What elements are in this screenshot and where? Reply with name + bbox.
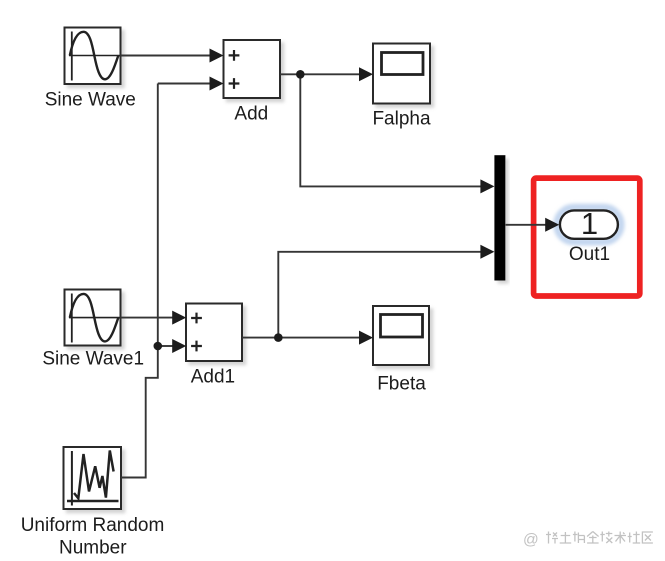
svg-text:Add1: Add1 xyxy=(191,367,235,388)
svg-text:Falpha: Falpha xyxy=(372,109,431,130)
svg-text:Fbeta: Fbeta xyxy=(377,374,426,395)
svg-text:Sine Wave1: Sine Wave1 xyxy=(42,349,144,370)
svg-text:Uniform Random: Uniform Random xyxy=(21,515,165,536)
svg-text:Out1: Out1 xyxy=(569,244,610,265)
svg-text:Number: Number xyxy=(59,537,127,558)
svg-text:Add: Add xyxy=(234,104,268,125)
svg-text:1: 1 xyxy=(581,206,598,241)
svg-text:@: @ xyxy=(523,532,539,549)
svg-text:Sine Wave: Sine Wave xyxy=(45,90,136,111)
